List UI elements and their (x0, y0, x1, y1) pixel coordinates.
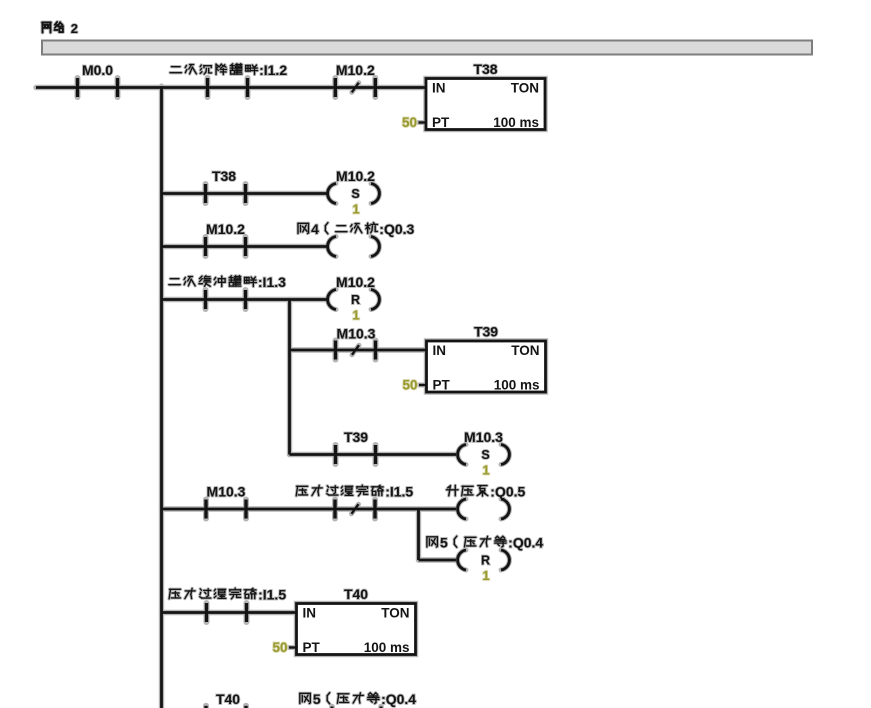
svg-text:R: R (351, 293, 360, 307)
svg-text:M10.3: M10.3 (337, 326, 376, 342)
svg-text:M10.2: M10.2 (336, 62, 375, 78)
svg-text:1: 1 (482, 462, 489, 477)
svg-text::I1.2: :I1.2 (259, 62, 287, 78)
svg-text:T39: T39 (474, 324, 498, 340)
svg-text:100 ms: 100 ms (494, 378, 540, 393)
svg-text:S: S (351, 187, 359, 201)
svg-text:M10.2: M10.2 (336, 274, 375, 290)
svg-text:PT: PT (432, 115, 450, 130)
svg-text:M10.2: M10.2 (336, 168, 375, 184)
svg-text:TON: TON (381, 606, 409, 621)
svg-text:IN: IN (303, 606, 317, 621)
svg-text:T40: T40 (344, 586, 368, 602)
svg-text:M10.2: M10.2 (206, 221, 245, 237)
svg-text:5: 5 (440, 535, 448, 551)
svg-text:R: R (481, 554, 490, 568)
svg-text::I1.3: :I1.3 (258, 274, 286, 290)
svg-text:M10.3: M10.3 (464, 429, 503, 445)
svg-text:T40: T40 (216, 691, 240, 707)
svg-text:4: 4 (311, 221, 319, 237)
svg-text:TON: TON (511, 343, 539, 358)
svg-text:1: 1 (352, 307, 359, 322)
svg-text:5: 5 (313, 691, 321, 707)
svg-text:TON: TON (511, 81, 539, 96)
svg-text:50: 50 (402, 115, 417, 130)
svg-text:S: S (481, 448, 489, 462)
svg-text:PT: PT (303, 640, 321, 655)
svg-text:100 ms: 100 ms (493, 115, 539, 130)
svg-text::Q0.4: :Q0.4 (508, 535, 543, 551)
svg-text::Q0.3: :Q0.3 (379, 221, 414, 237)
svg-text:IN: IN (432, 81, 446, 96)
svg-text:50: 50 (402, 378, 417, 393)
svg-text::Q0.5: :Q0.5 (490, 484, 525, 500)
svg-text:M10.3: M10.3 (207, 484, 246, 500)
svg-text:2: 2 (71, 21, 78, 36)
svg-text:50: 50 (272, 640, 287, 655)
svg-text:1: 1 (352, 201, 359, 216)
svg-text::I1.5: :I1.5 (258, 587, 286, 603)
svg-text:IN: IN (433, 343, 447, 358)
svg-text:PT: PT (433, 378, 451, 393)
svg-text:100 ms: 100 ms (364, 640, 410, 655)
svg-text:M0.0: M0.0 (82, 62, 113, 78)
svg-text:1: 1 (482, 568, 489, 583)
svg-text::Q0.4: :Q0.4 (381, 691, 416, 707)
svg-text:T38: T38 (473, 61, 497, 77)
svg-text::I1.5: :I1.5 (385, 484, 413, 500)
svg-text:T38: T38 (212, 168, 236, 184)
svg-text:T39: T39 (344, 429, 368, 445)
